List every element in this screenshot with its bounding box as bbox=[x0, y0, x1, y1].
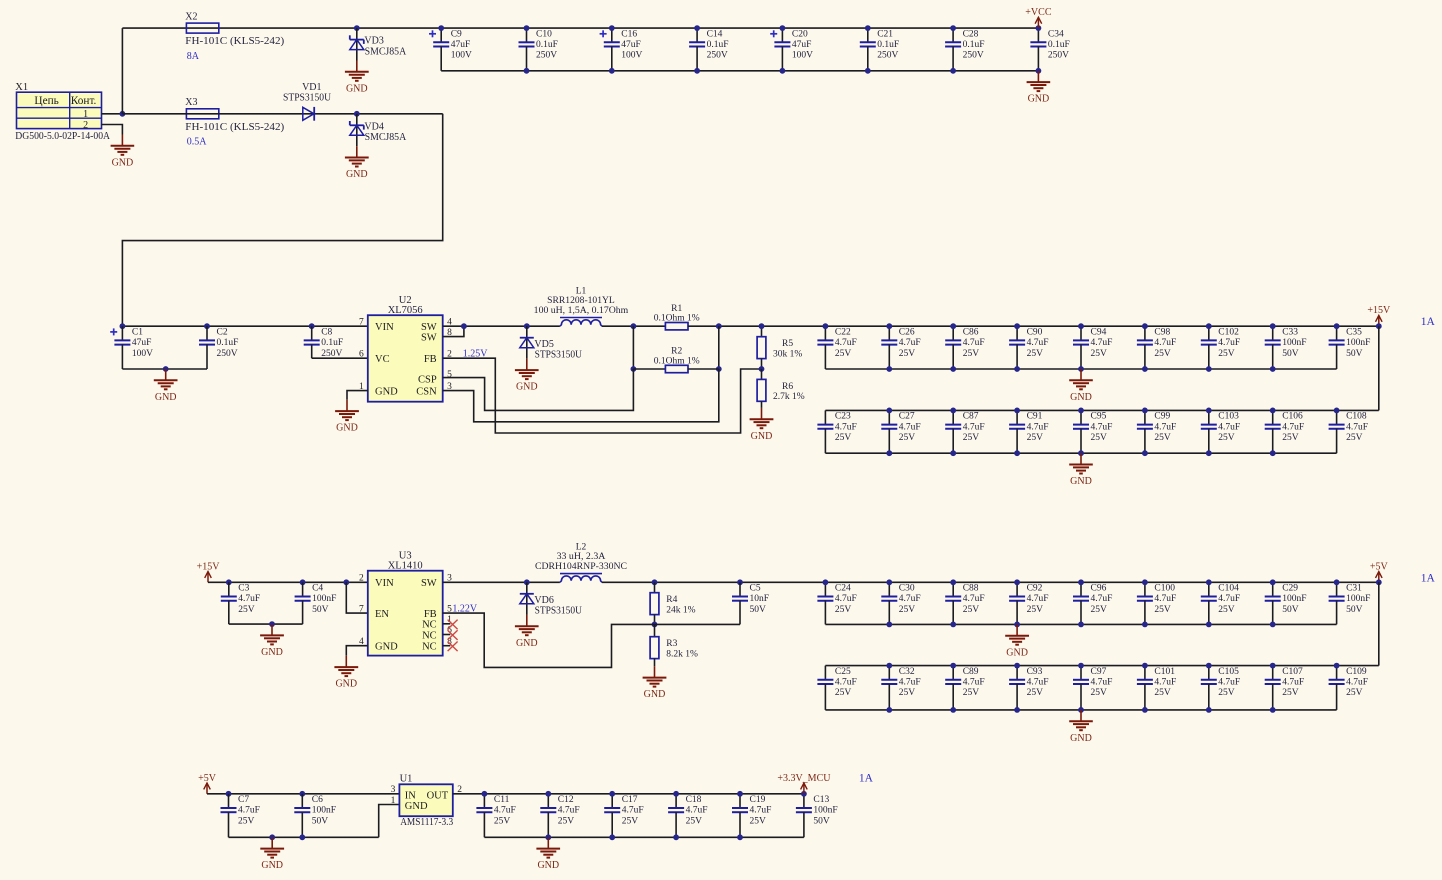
svg-text:L2: L2 bbox=[576, 542, 587, 552]
svg-text:GND: GND bbox=[261, 860, 283, 871]
svg-text:CDRH104RNP-330NC: CDRH104RNP-330NC bbox=[535, 562, 627, 572]
svg-text:4.7uF: 4.7uF bbox=[1091, 678, 1113, 688]
svg-text:C87: C87 bbox=[963, 412, 979, 422]
svg-text:4.7uF: 4.7uF bbox=[1346, 422, 1368, 432]
junction rail2 1337 bbox=[1334, 579, 1340, 585]
svg-text:4.7uF: 4.7uF bbox=[963, 422, 985, 432]
junction bank1b gnd 1273 bbox=[1270, 450, 1276, 456]
svg-text:25V: 25V bbox=[835, 688, 852, 698]
junction node C5 bbox=[737, 579, 743, 585]
svg-text:STPS3150U: STPS3150U bbox=[283, 93, 332, 104]
svg-text:4.7uF: 4.7uF bbox=[899, 678, 921, 688]
junction rail1 1209 bbox=[1206, 323, 1212, 329]
capacitor C5 10nF 50V bbox=[732, 582, 769, 624]
wire C3-C4 ground rail bbox=[229, 623, 303, 625]
capacitor C33 100nF 50V bbox=[1265, 326, 1307, 369]
resistor R2 0.1Ohm 1% bbox=[654, 347, 700, 373]
svg-text:OUT: OUT bbox=[427, 790, 449, 801]
capacitor C25 4.7uF 25V bbox=[817, 666, 856, 710]
svg-text:R6: R6 bbox=[782, 382, 793, 392]
junction node C8 bbox=[309, 323, 315, 329]
svg-text:4.7uF: 4.7uF bbox=[494, 806, 516, 816]
svg-text:4.7uF: 4.7uF bbox=[963, 678, 985, 688]
junction bank2a gnd 1273 bbox=[1270, 622, 1276, 628]
junction rail3 612 bbox=[609, 791, 615, 797]
diode VD4 SMCJ85A bbox=[350, 121, 407, 143]
wire C8 to VC bbox=[312, 357, 368, 359]
junction bank1a gnd 1017 bbox=[1014, 366, 1020, 372]
capacitor C108 4.7uF 25V bbox=[1329, 410, 1368, 453]
svg-text:SW: SW bbox=[421, 578, 437, 589]
svg-text:6: 6 bbox=[359, 349, 364, 359]
svg-text:100 uH, 1,5A, 0.17Ohm: 100 uH, 1,5A, 0.17Ohm bbox=[534, 306, 629, 316]
svg-text:AMS1117-3.3: AMS1117-3.3 bbox=[400, 817, 453, 828]
resistor R3 8.2k 1% bbox=[650, 637, 698, 660]
svg-text:4.7uF: 4.7uF bbox=[835, 678, 857, 688]
svg-text:GND: GND bbox=[1070, 476, 1092, 487]
svg-text:SRR1208-101YL: SRR1208-101YL bbox=[547, 296, 615, 306]
junction bank1b gnd 1145 bbox=[1142, 450, 1148, 456]
ground at bank3 bbox=[536, 837, 560, 871]
wire +5V to U1 IN bbox=[207, 793, 399, 795]
junction node EN tie bbox=[343, 579, 349, 585]
svg-text:CSN: CSN bbox=[416, 387, 437, 398]
svg-text:X3: X3 bbox=[185, 97, 197, 108]
junction rail1 889 bbox=[886, 323, 892, 329]
svg-text:4.7uF: 4.7uF bbox=[899, 422, 921, 432]
junction node C2 bbox=[204, 323, 210, 329]
wire VD3 to ground bbox=[356, 28, 358, 60]
svg-text:25V: 25V bbox=[963, 433, 980, 443]
svg-text:25V: 25V bbox=[1346, 688, 1363, 698]
svg-text:R2: R2 bbox=[671, 347, 682, 357]
svg-text:XL1410: XL1410 bbox=[388, 561, 423, 572]
wire bank2a ground rail bbox=[825, 623, 1336, 625]
svg-text:GND: GND bbox=[1070, 392, 1092, 403]
svg-text:C97: C97 bbox=[1091, 667, 1107, 677]
wire up to VCC rail bbox=[121, 28, 123, 114]
wire +3.3V rail bbox=[453, 793, 804, 795]
svg-text:C89: C89 bbox=[963, 667, 979, 677]
svg-text:50V: 50V bbox=[1346, 349, 1363, 359]
diode VD3 SMCJ85A bbox=[350, 35, 407, 57]
svg-text:1: 1 bbox=[391, 796, 396, 806]
svg-text:FB: FB bbox=[424, 354, 437, 365]
wire top bank ground rail bbox=[441, 70, 1038, 72]
svg-text:50V: 50V bbox=[312, 816, 329, 826]
capacitor C7 4.7uF 25V bbox=[221, 794, 260, 838]
fuse X2 FH-101C (KLS5-242) 8A bbox=[185, 12, 284, 62]
svg-text:47uF: 47uF bbox=[132, 338, 152, 348]
capacitor C91 4.7uF 25V bbox=[1009, 410, 1048, 453]
wire CSP sense bbox=[443, 369, 634, 410]
svg-text:100nF: 100nF bbox=[1346, 338, 1370, 348]
ground at U3 bbox=[334, 656, 358, 690]
wire bank1b rail bbox=[825, 409, 1378, 411]
svg-text:25V: 25V bbox=[899, 688, 916, 698]
inductor L2 33 uH, 2.3A bbox=[535, 542, 627, 582]
svg-text:+15V: +15V bbox=[197, 561, 221, 572]
junction rail3 676 bbox=[673, 791, 679, 797]
current label 1A bbox=[859, 773, 874, 785]
capacitor C1 47uF 100V bbox=[110, 326, 153, 369]
junction node C7 bbox=[226, 791, 232, 797]
resistor R5 30k 1% bbox=[757, 337, 802, 360]
junction rail1b 1337 bbox=[1334, 408, 1340, 414]
junction rail1b 1145 bbox=[1142, 408, 1148, 414]
power flag +15V bbox=[1367, 305, 1391, 326]
svg-text:C32: C32 bbox=[899, 667, 915, 677]
wire R3 bottom lead bbox=[654, 659, 656, 667]
svg-text:1.25V: 1.25V bbox=[463, 349, 489, 360]
svg-text:R4: R4 bbox=[666, 595, 677, 605]
junction gnd node C7/C6 bbox=[269, 834, 275, 840]
svg-text:4.7uF: 4.7uF bbox=[1091, 594, 1113, 604]
svg-text:C94: C94 bbox=[1091, 327, 1107, 337]
junction rail2b 1081 bbox=[1078, 663, 1084, 669]
junction node +15V bbox=[1376, 323, 1382, 329]
svg-text:25V: 25V bbox=[963, 605, 980, 615]
svg-text:100nF: 100nF bbox=[1282, 338, 1306, 348]
svg-text:FH-101C (KLS5-242): FH-101C (KLS5-242) bbox=[185, 121, 284, 133]
svg-text:50V: 50V bbox=[1282, 349, 1299, 359]
svg-text:X1: X1 bbox=[15, 82, 28, 93]
ground at R3 bbox=[643, 666, 667, 700]
svg-text:C86: C86 bbox=[963, 327, 979, 337]
capacitor C29 100nF 50V bbox=[1265, 582, 1307, 624]
capacitor C103 4.7uF 25V bbox=[1201, 410, 1240, 453]
svg-text:C107: C107 bbox=[1282, 667, 1303, 677]
svg-text:CSP: CSP bbox=[418, 375, 437, 386]
junction node VD4 bbox=[354, 111, 360, 117]
wire bank1a ground rail bbox=[825, 368, 1336, 370]
capacitor C11 4.7uF 25V bbox=[476, 794, 515, 838]
junction node R5 top bbox=[759, 323, 765, 329]
wire +VCC top rail bbox=[122, 27, 1038, 29]
svg-text:25V: 25V bbox=[622, 816, 639, 826]
svg-text:C93: C93 bbox=[1027, 667, 1043, 677]
no-connect pin at y=646 bbox=[443, 642, 458, 652]
junction top rail at x=782 bbox=[780, 25, 786, 31]
svg-text:C108: C108 bbox=[1346, 412, 1367, 422]
svg-text:25V: 25V bbox=[1154, 349, 1171, 359]
svg-text:C2: C2 bbox=[217, 327, 228, 337]
svg-text:+3.3V_MCU: +3.3V_MCU bbox=[777, 773, 831, 784]
svg-text:U3: U3 bbox=[399, 550, 412, 561]
svg-text:GND: GND bbox=[155, 392, 177, 403]
junction node VD6 bbox=[524, 579, 530, 585]
junction rail1 1017 bbox=[1014, 323, 1020, 329]
svg-text:0.1uF: 0.1uF bbox=[707, 40, 729, 50]
svg-text:C20: C20 bbox=[792, 29, 808, 39]
junction rail2b 1337 bbox=[1334, 663, 1340, 669]
capacitor C8 0.1uF 250V bbox=[304, 326, 343, 359]
svg-text:25V: 25V bbox=[1091, 433, 1108, 443]
junction rail1 1273 bbox=[1270, 323, 1276, 329]
svg-text:50V: 50V bbox=[1282, 605, 1299, 615]
junction rail3 804 bbox=[801, 791, 807, 797]
wire R4 bottom lead bbox=[654, 615, 656, 625]
wire +15V down to bank1b bbox=[1378, 326, 1380, 410]
resistor R4 24k 1% bbox=[650, 593, 696, 616]
svg-text:R1: R1 bbox=[671, 304, 682, 314]
svg-text:C9: C9 bbox=[451, 29, 462, 39]
svg-text:25V: 25V bbox=[750, 816, 767, 826]
svg-text:4.7uF: 4.7uF bbox=[1154, 678, 1176, 688]
svg-text:8.2k 1%: 8.2k 1% bbox=[666, 649, 698, 659]
svg-text:GND: GND bbox=[405, 801, 428, 812]
svg-text:25V: 25V bbox=[238, 816, 255, 826]
ground at C7/C6 bbox=[260, 837, 284, 871]
junction top bank gnd rail at x=868 bbox=[865, 68, 871, 74]
svg-text:4.7uF: 4.7uF bbox=[1218, 678, 1240, 688]
svg-text:GND: GND bbox=[1070, 733, 1092, 744]
wire +15V to U3 VIN bbox=[208, 581, 368, 583]
svg-text:C31: C31 bbox=[1346, 584, 1362, 594]
ground at VD3 bbox=[345, 61, 369, 95]
net label 1.25V bbox=[463, 349, 489, 360]
ground at U2 bbox=[335, 400, 359, 434]
capacitor C96 4.7uF 25V bbox=[1073, 582, 1112, 624]
svg-text:L1: L1 bbox=[576, 286, 587, 296]
junction node C6 bottom bbox=[299, 834, 305, 840]
wire U2 FB to divider bbox=[443, 358, 762, 433]
svg-text:C34: C34 bbox=[1048, 29, 1064, 39]
svg-text:C7: C7 bbox=[238, 795, 249, 805]
svg-text:25V: 25V bbox=[494, 816, 511, 826]
svg-text:7: 7 bbox=[359, 317, 364, 327]
wire X3 line bbox=[122, 113, 442, 115]
junction node C1 bbox=[120, 323, 126, 329]
capacitor C18 4.7uF 25V bbox=[668, 794, 707, 838]
capacitor C100 4.7uF 25V bbox=[1137, 582, 1176, 624]
svg-text:1.22V: 1.22V bbox=[452, 604, 478, 615]
wire VD6 to ground bbox=[526, 582, 528, 615]
junction bank2a gnd 889 bbox=[886, 622, 892, 628]
capacitor C22 4.7uF 25V bbox=[817, 326, 856, 369]
capacitor C26 4.7uF 25V bbox=[881, 326, 920, 369]
capacitor C97 4.7uF 25V bbox=[1073, 666, 1112, 710]
svg-text:25V: 25V bbox=[1154, 605, 1171, 615]
svg-text:25V: 25V bbox=[1027, 433, 1044, 443]
svg-text:24k 1%: 24k 1% bbox=[666, 605, 695, 615]
svg-text:GND: GND bbox=[516, 382, 538, 393]
svg-text:25V: 25V bbox=[899, 605, 916, 615]
svg-text:250V: 250V bbox=[1048, 51, 1069, 61]
junction top rail at x=697 bbox=[694, 25, 700, 31]
svg-text:25V: 25V bbox=[899, 349, 916, 359]
junction rail1b 1017 bbox=[1014, 408, 1020, 414]
svg-text:C4: C4 bbox=[312, 584, 323, 594]
junction top rail at x=953 bbox=[950, 25, 956, 31]
svg-text:4.7uF: 4.7uF bbox=[1154, 338, 1176, 348]
capacitor C101 4.7uF 25V bbox=[1137, 666, 1176, 710]
junction bank3 gnd 676 bbox=[673, 834, 679, 840]
capacitor C19 4.7uF 25V bbox=[732, 794, 771, 838]
junction node R2 left bbox=[631, 366, 637, 372]
svg-text:25V: 25V bbox=[1218, 688, 1235, 698]
svg-text:50V: 50V bbox=[813, 816, 830, 826]
svg-text:STPS3150U: STPS3150U bbox=[535, 606, 583, 617]
svg-text:GND: GND bbox=[375, 387, 398, 398]
svg-text:GND: GND bbox=[1006, 647, 1028, 658]
svg-text:C105: C105 bbox=[1218, 667, 1239, 677]
junction bank1a gnd 1209 bbox=[1206, 366, 1212, 372]
capacitor C102 4.7uF 25V bbox=[1201, 326, 1240, 369]
wire R6 bottom lead bbox=[761, 401, 763, 408]
current label 1A bbox=[1421, 316, 1436, 328]
junction rail3 548 bbox=[545, 791, 551, 797]
svg-text:C17: C17 bbox=[622, 795, 638, 805]
junction bank1a gnd 1273 bbox=[1270, 366, 1276, 372]
svg-text:C28: C28 bbox=[963, 29, 979, 39]
svg-text:25V: 25V bbox=[963, 688, 980, 698]
junction bank3 gnd 548 bbox=[545, 834, 551, 840]
svg-text:XL7056: XL7056 bbox=[388, 305, 423, 316]
diode VD5 STPS3150U bbox=[520, 338, 583, 361]
svg-text:0.1uF: 0.1uF bbox=[877, 40, 899, 50]
svg-text:25V: 25V bbox=[1282, 433, 1299, 443]
junction top rail at x=868 bbox=[865, 25, 871, 31]
svg-text:GND: GND bbox=[335, 679, 357, 690]
wire bank1b ground rail bbox=[825, 452, 1336, 454]
svg-text:47uF: 47uF bbox=[792, 40, 812, 50]
svg-text:VD6: VD6 bbox=[534, 595, 553, 606]
capacitor C104 4.7uF 25V bbox=[1201, 582, 1240, 624]
junction node X1 pin1 / VCC input bbox=[120, 111, 126, 117]
svg-text:25V: 25V bbox=[558, 816, 575, 826]
wire CSN sense bbox=[443, 369, 719, 422]
ground at bank2b bbox=[1069, 710, 1093, 744]
resistor R1 0.1Ohm 1% bbox=[654, 304, 700, 330]
svg-text:+5V: +5V bbox=[1370, 561, 1389, 572]
junction node R4/R3 divider bbox=[652, 622, 658, 628]
junction top bank gnd rail at x=697 bbox=[694, 68, 700, 74]
svg-text:250V: 250V bbox=[707, 51, 728, 61]
svg-text:25V: 25V bbox=[1027, 349, 1044, 359]
svg-text:4.7uF: 4.7uF bbox=[1218, 338, 1240, 348]
svg-text:C1: C1 bbox=[132, 327, 143, 337]
junction bank2b gnd 1273 bbox=[1270, 707, 1276, 713]
current label 1A bbox=[1421, 572, 1436, 584]
wire R5 top lead bbox=[761, 326, 763, 337]
svg-text:4.7uF: 4.7uF bbox=[238, 594, 260, 604]
svg-text:+VCC: +VCC bbox=[1025, 7, 1052, 18]
junction node VD5 bbox=[524, 323, 530, 329]
svg-text:4.7uF: 4.7uF bbox=[963, 594, 985, 604]
svg-text:4.7uF: 4.7uF bbox=[899, 338, 921, 348]
svg-text:100nF: 100nF bbox=[312, 594, 336, 604]
svg-text:25V: 25V bbox=[1154, 433, 1171, 443]
svg-text:25V: 25V bbox=[1218, 433, 1235, 443]
svg-text:25V: 25V bbox=[1027, 605, 1044, 615]
wire U2 SW pin8 tie bbox=[443, 326, 464, 336]
junction rail1 1145 bbox=[1142, 323, 1148, 329]
junction rail1 953 bbox=[950, 323, 956, 329]
junction top bank gnd at C34 bbox=[1036, 68, 1042, 74]
svg-text:4.7uF: 4.7uF bbox=[1346, 678, 1368, 688]
svg-text:100nF: 100nF bbox=[813, 806, 837, 816]
svg-text:50V: 50V bbox=[312, 605, 329, 615]
svg-text:C8: C8 bbox=[321, 327, 332, 337]
svg-text:GND: GND bbox=[1028, 94, 1050, 105]
svg-text:25V: 25V bbox=[238, 605, 255, 615]
svg-text:C104: C104 bbox=[1218, 584, 1239, 594]
wire row3 right ground rail bbox=[484, 836, 804, 838]
svg-text:250V: 250V bbox=[321, 349, 342, 359]
svg-text:C35: C35 bbox=[1346, 327, 1362, 337]
svg-text:0.1uF: 0.1uF bbox=[1048, 40, 1070, 50]
capacitor C23 4.7uF 25V bbox=[817, 410, 856, 453]
svg-text:4.7uF: 4.7uF bbox=[558, 806, 580, 816]
junction bank2b gnd 1017 bbox=[1014, 707, 1020, 713]
wire U2 VIN rail bbox=[122, 325, 367, 327]
wire R6 top lead bbox=[761, 369, 763, 379]
svg-text:DG500-5.0-02P-14-00A: DG500-5.0-02P-14-00A bbox=[15, 131, 110, 142]
junction node C3 bbox=[226, 579, 232, 585]
svg-text:C23: C23 bbox=[835, 412, 851, 422]
svg-text:25V: 25V bbox=[899, 433, 916, 443]
svg-text:SMCJ85A: SMCJ85A bbox=[365, 46, 407, 57]
ground at VD5 bbox=[515, 359, 539, 393]
fuse X3 FH-101C (KLS5-242) 0.5A bbox=[185, 97, 284, 147]
junction bank1b gnd 1017 bbox=[1014, 450, 1020, 456]
capacitor C34 0.1uF 250V bbox=[1030, 28, 1069, 71]
junction rail2b 1273 bbox=[1270, 663, 1276, 669]
svg-text:25V: 25V bbox=[1346, 433, 1363, 443]
svg-text:250V: 250V bbox=[536, 51, 557, 61]
junction node R5/R6 divider bbox=[759, 366, 765, 372]
svg-text:C10: C10 bbox=[536, 29, 552, 39]
capacitor C30 4.7uF 25V bbox=[881, 582, 920, 624]
wire X1 pin 1 bbox=[102, 113, 123, 115]
capacitor C3 4.7uF 25V bbox=[221, 582, 260, 624]
svg-text:C98: C98 bbox=[1154, 327, 1170, 337]
junction top bank gnd rail at x=953 bbox=[950, 68, 956, 74]
svg-text:25V: 25V bbox=[1154, 688, 1171, 698]
svg-text:SW: SW bbox=[421, 333, 437, 344]
svg-text:C95: C95 bbox=[1091, 412, 1107, 422]
junction bank2a gnd 1017 bbox=[1014, 622, 1020, 628]
capacitor C95 4.7uF 25V bbox=[1073, 410, 1112, 453]
capacitor C31 100nF 50V bbox=[1329, 582, 1371, 624]
capacitor C10 0.1uF 250V bbox=[519, 28, 558, 71]
junction rail3 740 bbox=[737, 791, 743, 797]
op-amp U1 AMS1117-3.3 regulator bbox=[391, 774, 463, 828]
svg-text:47uF: 47uF bbox=[451, 40, 471, 50]
svg-text:1A: 1A bbox=[1421, 316, 1436, 328]
svg-text:GND: GND bbox=[644, 689, 666, 700]
junction rail1b 1209 bbox=[1206, 408, 1212, 414]
no-connect pin at y=634 bbox=[443, 630, 458, 640]
svg-text:4.7uF: 4.7uF bbox=[1282, 422, 1304, 432]
capacitor C17 4.7uF 25V bbox=[604, 794, 643, 838]
svg-text:C14: C14 bbox=[707, 29, 723, 39]
capacitor C2 0.1uF 250V bbox=[199, 326, 238, 369]
power flag +VCC bbox=[1025, 7, 1052, 28]
svg-text:2.7k 1%: 2.7k 1% bbox=[773, 392, 805, 402]
junction bank2b gnd 1081 bbox=[1078, 707, 1084, 713]
capacitor C20 47uF 100V bbox=[770, 28, 813, 71]
svg-text:0.1Ohm 1%: 0.1Ohm 1% bbox=[654, 356, 700, 366]
wire U3 GND pin bbox=[346, 646, 368, 656]
junction bank2b gnd 889 bbox=[886, 707, 892, 713]
wire C5 to divider bbox=[655, 623, 741, 625]
junction top rail at x=527 bbox=[524, 25, 530, 31]
wire X1 pin 2 to ground bbox=[102, 125, 123, 135]
junction gnd node C3/C4 bbox=[269, 621, 275, 627]
ground at bank2a bbox=[1005, 624, 1029, 658]
